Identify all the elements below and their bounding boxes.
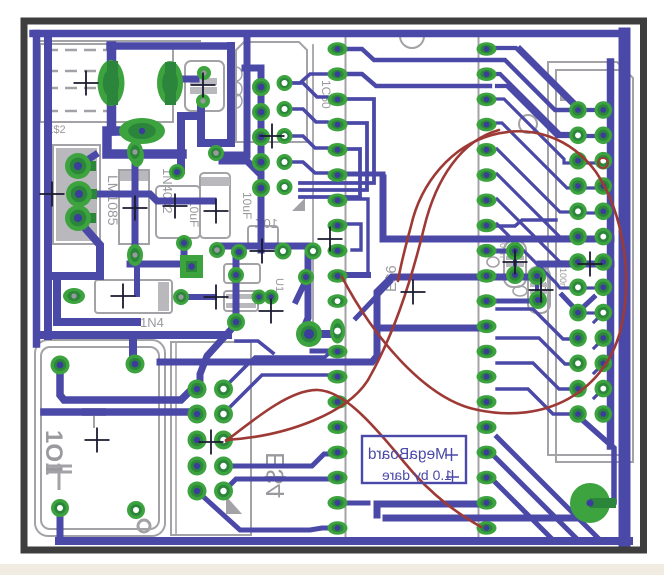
via A3	[252, 128, 270, 146]
pad IC2 pin R18	[477, 471, 497, 485]
wire grid stub r8b	[585, 286, 596, 289]
wire ES4 diag 1	[223, 351, 332, 389]
wire grid stub r9b	[585, 311, 596, 314]
wire row226 jog	[486, 220, 556, 226]
wire fan via-DIP 3	[292, 136, 327, 148]
pad K1 3	[51, 499, 69, 517]
pad ES4 r5c1	[188, 482, 207, 501]
connector ES4 silk box	[171, 342, 251, 535]
pad IC2 pin R5	[477, 143, 497, 157]
via B3	[277, 128, 293, 144]
pad IC2 pin R1	[477, 42, 497, 56]
capacitor C1 outline	[156, 186, 200, 238]
pad IC2 pin L18	[328, 471, 348, 485]
pad IC2 pin L20	[328, 521, 348, 535]
wire y322 left	[57, 280, 137, 322]
pad big circle	[570, 483, 610, 523]
wire oval2 to crystal	[170, 76, 196, 83]
wire R1 internal	[513, 251, 517, 275]
silk ellipse a	[487, 257, 499, 267]
origin cross 8	[111, 284, 136, 309]
via B2	[277, 101, 293, 117]
wire top row2 long	[347, 74, 490, 86]
pad IC2 pin R15	[477, 395, 497, 409]
wire D1 to D3	[186, 294, 214, 300]
pad D2 top	[127, 141, 143, 163]
pad IC2 pin R14	[477, 370, 497, 384]
via big dark	[296, 321, 322, 347]
pad IC2 pin L11	[328, 294, 348, 308]
via mid 2	[275, 243, 292, 260]
wire bottom stub 503	[347, 501, 368, 506]
pad EXT B11	[595, 355, 613, 373]
pad crystal 2	[196, 94, 210, 108]
pad ES4 r3c1	[188, 431, 207, 450]
pad U1085 1	[78, 161, 96, 171]
via A5	[252, 179, 270, 197]
wire fan TR a	[497, 48, 578, 110]
origin cross 13	[199, 430, 224, 455]
pad IC2 pin R10	[477, 269, 497, 283]
wire board border left outer	[33, 34, 41, 345]
wire fan TR b	[520, 48, 596, 110]
origin cross 10	[259, 299, 284, 324]
wire diag BR 1	[497, 437, 600, 540]
wire grid V	[562, 295, 594, 312]
wire fan TR l2	[497, 123, 572, 188]
right connector silk box inner	[556, 70, 633, 462]
pad oval C-power2 stripe	[165, 62, 176, 105]
wire crystal branch to C1	[181, 116, 201, 170]
pad IC2 pin L9	[328, 244, 348, 258]
right connector arrow	[560, 89, 572, 101]
pad oval C-power2	[157, 61, 183, 105]
wire oval row275 stub	[347, 272, 368, 278]
pad IC2 pin R16	[477, 420, 497, 434]
pad IC2 pin L1	[328, 42, 348, 56]
svg-text:MegaBoard: MegaBoard	[368, 446, 448, 463]
pad EXT A2	[569, 127, 587, 145]
regulator U outline	[53, 145, 100, 244]
wire bottom y504	[377, 504, 486, 515]
wire mid horizontal y239	[383, 178, 611, 239]
wire x236 chain	[233, 255, 240, 324]
origin cross 14	[401, 280, 426, 305]
wire to D1	[134, 261, 140, 294]
origin cross 3	[40, 182, 65, 207]
wire board border top	[33, 30, 625, 38]
pad oval vertical L	[330, 319, 345, 344]
pad ES4 r3c2	[214, 431, 233, 450]
via B4	[277, 154, 293, 170]
wire fan TR c	[497, 74, 571, 134]
pad EXT A13	[569, 405, 587, 423]
text box cross 1	[445, 448, 458, 461]
pad IC2 pin R17	[477, 446, 497, 460]
wire fan BR b	[497, 338, 570, 364]
wire relay pad1 down	[60, 368, 197, 400]
wire top row1 long	[347, 49, 571, 110]
pad C1 bottom	[176, 235, 192, 251]
pad EXT A9	[569, 304, 587, 322]
svg-text:E$4: E$4	[260, 452, 290, 498]
pad IC2 pin L16	[328, 420, 348, 434]
crystal Q1 body fill	[190, 78, 217, 85]
origin cross 7	[260, 124, 285, 149]
pad D1 left	[63, 288, 85, 304]
silk circle small	[138, 520, 150, 532]
pad IC2 pin R12	[477, 320, 497, 334]
wire grid stub r5b	[585, 211, 596, 214]
pad EXT B4	[595, 177, 613, 195]
DIP socket IC2 right side	[478, 36, 480, 540]
wire board border right outer	[619, 34, 631, 542]
pad ES4 r4c1	[188, 457, 207, 476]
wire fan TR l3	[497, 149, 571, 212]
wire board border left inner	[44, 37, 52, 336]
crystal Q1 outline	[185, 61, 224, 111]
via B5	[277, 179, 293, 195]
wire bracket row224	[347, 224, 361, 250]
svg-text:U1: U1	[273, 278, 285, 292]
pad K1 1	[51, 356, 70, 375]
text MegaBoard mirrored	[368, 446, 452, 483]
via mid 5	[298, 269, 314, 285]
diode D3 outline	[224, 264, 260, 283]
wire square pad row	[130, 261, 185, 268]
wire DIP-L nest 2	[300, 123, 367, 190]
wire C1 bottom down	[181, 243, 188, 261]
wire U pad3 loop	[48, 220, 100, 276]
wire R1 link	[486, 249, 515, 254]
pad EXT A8	[569, 279, 587, 297]
pad square	[180, 255, 203, 278]
wire IC1 vertical	[216, 34, 247, 156]
resistor R4 outline	[224, 291, 258, 311]
origin cross 1	[74, 71, 99, 96]
wire grid stub s3	[594, 364, 603, 373]
text box MegaBoard	[362, 436, 466, 483]
pad IC2 pin R13	[477, 345, 497, 359]
pad EXT A7	[569, 253, 587, 271]
wire big circle stub	[594, 499, 614, 505]
pad EXT B7	[595, 253, 613, 271]
diode D2 outline	[119, 170, 149, 244]
wire mid horizontal y277	[160, 277, 537, 362]
pad EXT B10	[595, 329, 613, 347]
wire R2 link	[486, 299, 538, 304]
via mid 6	[228, 267, 244, 283]
wire crystal loop	[201, 46, 231, 143]
pad ES4 r2c2	[214, 405, 233, 424]
wire horizontal y335	[44, 331, 228, 339]
origin cross 17	[578, 252, 603, 277]
wire fan BR d	[497, 389, 570, 414]
pad IC2 pin L14	[328, 370, 348, 384]
DIP socket IC2 left side	[345, 36, 347, 540]
wire ES4 to DIP row477	[224, 479, 332, 491]
wire ES4 diag 2	[223, 375, 332, 414]
wire mid horizontal y264	[540, 261, 611, 268]
svg-text:1N4: 1N4	[140, 315, 164, 330]
wire fan via-DIP 0	[292, 74, 327, 83]
wire power jack vertical	[107, 46, 117, 131]
pad IC2 pin R8	[477, 219, 497, 233]
wire ES4 diag 3	[236, 341, 273, 353]
wire fan TR l6	[497, 224, 572, 288]
via mid 3	[305, 243, 322, 260]
pad oval wide	[119, 118, 165, 144]
pad IC2 pin L17	[328, 446, 348, 460]
wire via277 diag	[296, 280, 306, 301]
pad EXT B3	[595, 152, 613, 170]
pad IC2 pin L10	[328, 269, 348, 283]
wire grid stub s2	[594, 339, 603, 348]
silk jack dashed line 1	[46, 70, 118, 73]
pad IC2 pin R11	[477, 294, 497, 308]
pad IC2 pin R4	[477, 118, 497, 132]
origin cross 5	[163, 194, 188, 219]
svg-text:1.0 by dare: 1.0 by dare	[382, 467, 452, 483]
pad ES4 r1c2	[214, 380, 233, 399]
pad ES4 r2c1	[188, 405, 207, 424]
origin cross 16	[529, 278, 554, 303]
bottom strip	[0, 564, 664, 575]
silk jack dashed line 0	[46, 49, 118, 52]
svg-text:1O1: 1O1	[40, 430, 67, 475]
via A4	[252, 153, 270, 171]
origin cross 15	[503, 250, 528, 275]
pad U1 cluster a	[264, 290, 279, 305]
wire IC1 right loop	[245, 68, 261, 83]
pad ES4 r1c1	[188, 380, 207, 399]
pad IC2 pin R7	[477, 194, 497, 208]
capacitor C3 band fill	[201, 177, 230, 186]
origin cross 11	[250, 239, 275, 264]
pad small oval	[130, 145, 144, 167]
pad IC2 pin L6	[328, 168, 348, 182]
pad IC2 pin L4	[328, 118, 348, 132]
pad EXT A11	[569, 355, 587, 373]
pad IC2 pin L7	[328, 194, 348, 208]
wire board border right inner	[607, 62, 615, 446]
relay K1 outline outer	[35, 340, 165, 536]
wire diag BR 3	[490, 477, 553, 540]
wire fan BR c	[497, 363, 570, 389]
wire fan TR l1	[497, 99, 570, 163]
wire fan TR l4	[497, 174, 570, 237]
pad IC2 pin L2	[328, 67, 348, 81]
silk barrel jack X1 outline	[40, 44, 173, 122]
wire via col horizontal y246	[221, 243, 308, 250]
silk ellipse b	[513, 286, 527, 296]
pad R2 a	[528, 267, 546, 285]
wire D2 vertical	[132, 152, 139, 255]
wire ES4 to DIP row453	[224, 454, 332, 466]
silk triangle mid	[292, 198, 305, 211]
wire grid stub s4	[594, 389, 603, 398]
relay K1 outline inner	[41, 347, 159, 529]
wire fan via-DIP 2	[292, 109, 327, 122]
resistor R1 silk capsule	[504, 241, 526, 287]
silk vertical x234	[233, 50, 235, 142]
wire DIP-L nest 4	[347, 174, 383, 200]
wire U pad2 to C1	[79, 194, 213, 201]
silk resistor R3 box	[248, 226, 278, 244]
wire board border bottom	[59, 537, 629, 545]
pad EXT B1	[595, 101, 613, 119]
pad EXT A5	[569, 203, 587, 221]
airwire long S	[226, 130, 499, 440]
pad ES4 r5c2	[214, 482, 233, 501]
pad IC2 pin L19	[328, 496, 348, 510]
pad EXT B2	[595, 127, 613, 145]
wire R2 internal	[535, 276, 539, 300]
via B1	[277, 75, 293, 91]
wire fan via-DIP 1	[292, 83, 327, 97]
wire DIP-L nest 3	[300, 149, 360, 197]
wire via col down	[303, 251, 308, 330]
pad D1 right	[173, 289, 189, 305]
diode D2 cathode band	[120, 171, 148, 181]
connector ES4 arrow	[226, 496, 242, 514]
pad EXT B12	[595, 380, 613, 398]
pad IC2 pin L8	[328, 219, 348, 233]
pad EXT A3	[569, 152, 587, 170]
pad oval C-power1	[98, 60, 125, 106]
via A2	[252, 103, 270, 121]
wire mid horizontal y328	[377, 325, 480, 332]
silk jack dashed line 3	[46, 110, 118, 113]
pad IC2 pin L5	[328, 143, 348, 157]
pad R1 a	[506, 242, 524, 260]
pad R1 b	[506, 266, 524, 284]
pad U1085 3	[78, 213, 96, 223]
via mid 4	[227, 313, 245, 331]
pad IC2 pin L3	[328, 93, 348, 107]
pad IC2 pin R20	[477, 521, 497, 535]
pad D3 right	[252, 290, 267, 305]
wire oval to D2	[134, 134, 140, 152]
pad EXT A6	[569, 228, 587, 246]
pad K1 2	[126, 355, 145, 374]
origin cross 2	[191, 73, 216, 98]
pad IC2 pin L15	[328, 395, 348, 409]
wire fan TR d	[497, 86, 596, 136]
wire bracket row199	[347, 199, 368, 275]
pad EXT A10	[569, 329, 587, 347]
wire U pad1 stub	[78, 155, 95, 166]
pad C1 top	[169, 164, 185, 180]
wire grid stub r4b	[580, 186, 596, 189]
capacitor C3 outline	[200, 173, 230, 238]
wire bottom y518	[386, 515, 590, 522]
pad R2 b	[529, 291, 547, 309]
via mid 1	[231, 244, 247, 260]
wire row351 stub	[312, 349, 332, 354]
wire big pad to DIP	[310, 330, 331, 338]
pad EXT B6	[595, 228, 613, 246]
origin cross 4	[123, 196, 148, 221]
right connector silk box outer	[548, 62, 626, 455]
pad K1 4	[127, 501, 145, 519]
via A1	[252, 78, 270, 96]
wire power loop left	[107, 131, 182, 154]
pad IC2 pin R19	[477, 496, 497, 510]
pad D2 bottom	[127, 244, 143, 266]
wire DIP-L nest 1	[300, 99, 374, 183]
origin cross 12	[85, 428, 110, 453]
diode D1 outline	[95, 280, 172, 313]
wire grid stub r6b	[585, 236, 596, 239]
wire fan via-DIP 4	[292, 162, 327, 173]
silk circle mounting	[519, 115, 537, 133]
pad EXT A1	[569, 101, 587, 119]
wire ES4 to DIP row528	[197, 491, 332, 530]
wire diag BR 2	[490, 452, 578, 540]
wire fan TR l5	[497, 199, 570, 262]
wire relay pad to bottom	[57, 508, 64, 541]
pad IC2 pin R2	[477, 67, 497, 81]
silk relay comb	[82, 409, 106, 428]
airwire ring	[598, 158, 608, 168]
origin cross 6	[204, 199, 229, 224]
silk jack dashed line 2	[46, 87, 118, 90]
wire diag to oval330	[356, 282, 390, 318]
regulator U tab fill	[56, 148, 97, 241]
wire C3 to via col	[222, 161, 258, 172]
pad EXT B8	[595, 279, 613, 297]
pad EXT A12	[569, 380, 587, 398]
pad EXT B5	[595, 203, 613, 221]
silk vertical x313	[312, 45, 314, 335]
pad IC2 pin R3	[477, 93, 497, 107]
wire top bar y46	[110, 42, 231, 50]
pad EXT B9	[595, 304, 613, 322]
IC1 silk box	[236, 42, 307, 142]
pad U1085 2	[79, 189, 97, 199]
pad EXT A4	[569, 177, 587, 195]
pad EXT B13	[595, 405, 613, 423]
pad IC2 pin L13	[328, 345, 348, 359]
silk board outline top	[40, 40, 200, 42]
DIP socket IC2 top with notch	[346, 36, 479, 48]
pad C3 top	[208, 145, 224, 161]
pad oval C-power1 stripe	[107, 61, 118, 105]
pad ES4 r4c2	[214, 457, 233, 476]
wire relay up link	[129, 335, 137, 362]
pad IC2 pin R9	[477, 244, 497, 258]
wire x236 to ES4	[200, 324, 236, 385]
wire grid stub r3b	[580, 161, 596, 164]
silk cap symbol	[46, 466, 72, 490]
pad crystal 1	[197, 66, 211, 80]
wire big circle link	[578, 416, 614, 500]
silk small ellipses	[230, 67, 242, 81]
origin cross 9	[204, 285, 229, 310]
pad C3 bottom	[209, 242, 225, 258]
wire fan BR a	[497, 309, 570, 339]
text box cross 2	[446, 470, 459, 483]
pad IC2 pin R6	[477, 168, 497, 182]
resistor R2 silk capsule	[528, 267, 550, 313]
wire relay y412	[44, 408, 190, 416]
svg-text:10uF: 10uF	[240, 192, 254, 219]
origin cross 18	[318, 227, 343, 252]
wire grid stub s1	[594, 313, 603, 322]
wire via colA vertical	[258, 85, 265, 250]
airwire wave bottom	[226, 390, 481, 527]
